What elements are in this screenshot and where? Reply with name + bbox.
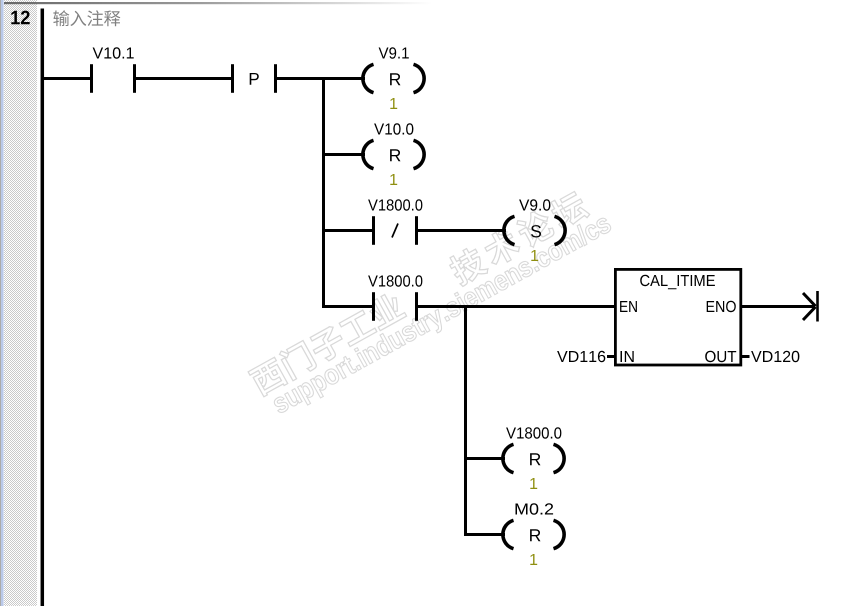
coil M0.2 R xyxy=(503,503,564,565)
network number 12 xyxy=(11,11,29,25)
branch vertical wire 1 xyxy=(322,77,325,308)
network separator gradient bar xyxy=(4,2,432,4)
wire contact to CAL_ITIME EN input xyxy=(417,305,617,308)
contact P positive edge xyxy=(233,64,276,93)
wire branch to contact V1800.0 row4 xyxy=(322,305,372,308)
function block CAL_ITIME xyxy=(615,269,740,365)
coil V9.0 S xyxy=(504,199,565,261)
wire contact V10.1 to contact P xyxy=(135,77,233,80)
wire branch2 to coil V1800.0 xyxy=(464,457,505,460)
coil V9.1 R xyxy=(363,47,424,109)
wire ENO to continuation arrow xyxy=(741,305,814,308)
wire branch to NC contact V1800.0 xyxy=(322,229,372,232)
contact V10.1 xyxy=(92,47,135,93)
wire NC contact to coil V9.0 xyxy=(417,229,507,232)
wire branch to coil V10.0 xyxy=(322,153,365,156)
left window border strip xyxy=(1,0,4,606)
operand VD120 OUT xyxy=(741,351,799,362)
wire rail to contact V10.1 xyxy=(44,77,91,80)
left power rail xyxy=(41,9,45,606)
watermark: siemens industry forum diagonal text xyxy=(247,182,615,422)
coil V1800.0 R xyxy=(503,427,564,489)
continuation arrow xyxy=(803,291,818,322)
NC contact V1800.0 xyxy=(368,199,422,245)
contact V1800.0 row4 xyxy=(368,275,422,321)
network comment 输入注释 xyxy=(53,10,120,26)
window edge xyxy=(0,0,1,606)
operand VD116 IN xyxy=(557,351,615,362)
wire contact P to coil V9.1 xyxy=(276,77,366,80)
coil V10.0 R xyxy=(363,123,424,185)
network gutter hatch xyxy=(4,0,37,606)
branch vertical wire 2 xyxy=(464,305,467,536)
wire branch2 to coil M0.2 xyxy=(464,533,505,536)
